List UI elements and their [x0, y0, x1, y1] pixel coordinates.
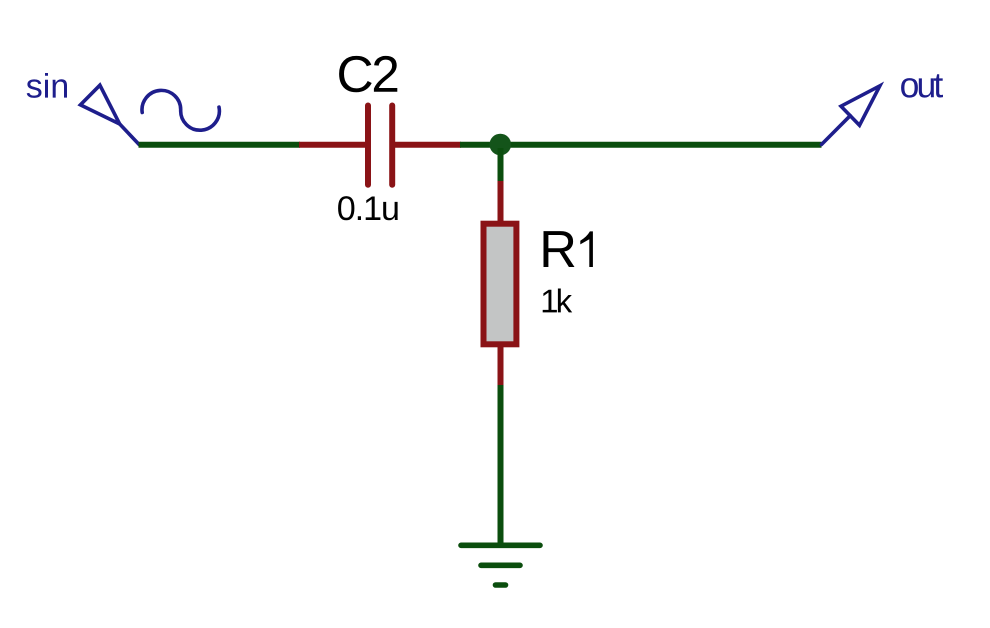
sine wave source symbol [142, 90, 219, 130]
wire node to resistor [498, 148, 504, 184]
label C2 [339, 56, 397, 92]
port out (output terminal) [822, 86, 880, 145]
wire output segment [460, 142, 822, 148]
label R1 [544, 231, 593, 267]
wire input segment [139, 142, 301, 148]
label out [901, 74, 943, 97]
junction node dot [490, 134, 512, 156]
ground symbol [461, 545, 540, 585]
label sin [27, 73, 67, 98]
label 0.1u [338, 196, 398, 220]
capacitor C2 [299, 106, 461, 185]
resistor R1 [484, 181, 517, 386]
wire resistor to ground [498, 385, 504, 545]
label 1k [543, 289, 573, 313]
port sin (input terminal) [80, 85, 139, 144]
